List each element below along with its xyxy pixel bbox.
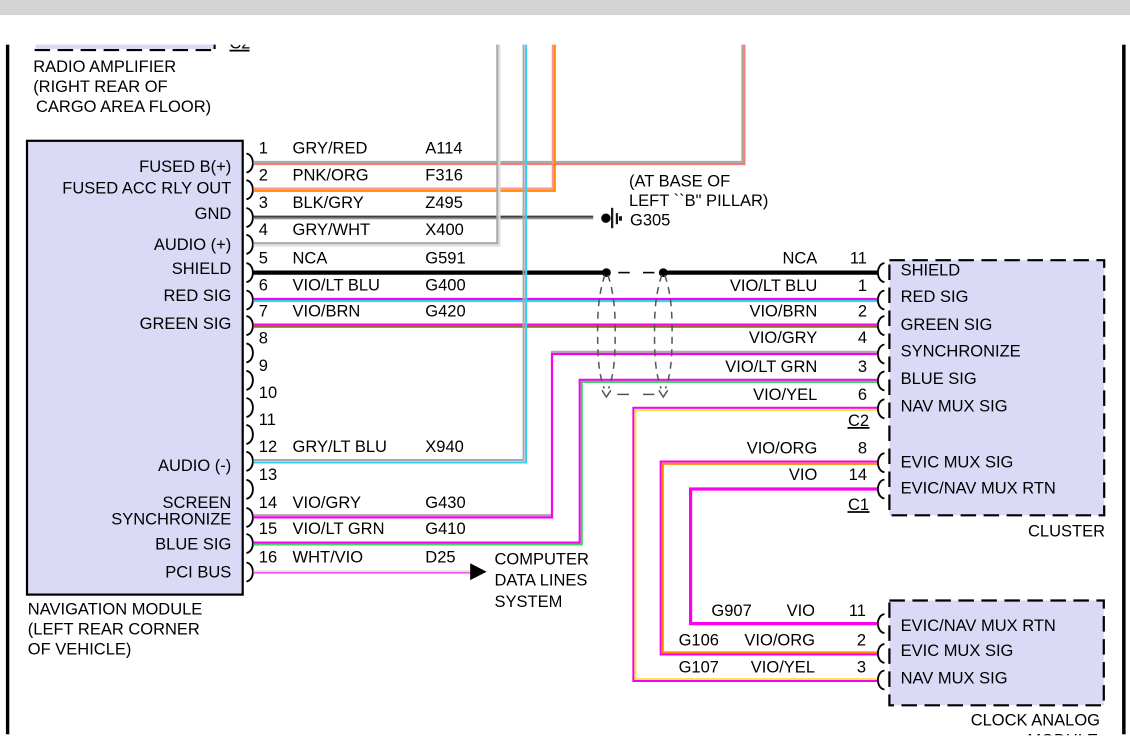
clock wire label G106 VIO/ORG pin 2 — [679, 632, 866, 650]
svg-text:BLK/GRY: BLK/GRY — [293, 194, 364, 212]
pin 5 number and wire label — [259, 249, 466, 267]
svg-text:VIO/YEL: VIO/YEL — [753, 386, 817, 404]
svg-text:GREEN SIG: GREEN SIG — [901, 316, 993, 334]
svg-text:13: 13 — [259, 466, 277, 484]
svg-text:VIO/LT BLU: VIO/LT BLU — [730, 277, 817, 295]
clock module pin connector NAV MUX SIG — [878, 671, 885, 690]
pin 10 number and wire label — [259, 384, 277, 402]
cluster wire label VIO/BRN pin 2 — [749, 303, 867, 321]
cluster pin connector GREEN SIG — [878, 316, 885, 335]
svg-text:8: 8 — [858, 440, 867, 458]
nav module pin 3 connector — [246, 208, 253, 227]
svg-text:4: 4 — [858, 329, 867, 347]
wire 4 GRY/WHT X400 — [253, 45, 499, 246]
wire EVIC MUX SIG VIO/ORG — [661, 462, 878, 655]
pin 2 number and wire label — [259, 166, 463, 184]
wire 5 SHIELD NCA G591 — [253, 271, 877, 275]
svg-text:6: 6 — [259, 277, 268, 295]
pin 9 number and wire label — [259, 357, 268, 375]
svg-text:CLUSTER: CLUSTER — [1028, 522, 1105, 540]
svg-text:16: 16 — [259, 549, 277, 567]
svg-text:SHIELD: SHIELD — [901, 262, 961, 280]
shield loop (right, dashed) — [655, 275, 673, 397]
shield loop bottom link (dashed) — [617, 393, 654, 395]
nav module pin 15 connector — [246, 534, 253, 553]
svg-text:G400: G400 — [425, 277, 465, 295]
svg-text:RED SIG: RED SIG — [901, 288, 969, 306]
svg-text:VIO/LT GRN: VIO/LT GRN — [725, 358, 817, 376]
svg-text:EVIC MUX SIG: EVIC MUX SIG — [901, 454, 1014, 472]
svg-text:SYNCHRONIZE: SYNCHRONIZE — [901, 343, 1021, 361]
svg-text:VIO/YEL: VIO/YEL — [751, 658, 815, 676]
svg-text:5: 5 — [259, 249, 268, 267]
cluster wire label VIO/GRY pin 4 — [749, 329, 867, 347]
svg-text:VIO/BRN: VIO/BRN — [749, 303, 817, 321]
navigation module caption — [28, 601, 203, 659]
svg-text:14: 14 — [849, 466, 867, 484]
wire 15 VIO/LT GRN G410 blue sig — [253, 380, 877, 545]
svg-text:G410: G410 — [425, 520, 465, 538]
cluster pin connector SYNCHRONIZE — [878, 345, 885, 364]
svg-text:G430: G430 — [425, 494, 465, 512]
svg-text:AUDIO (-): AUDIO (-) — [158, 457, 231, 475]
svg-text:D25: D25 — [425, 549, 455, 567]
clock module pin connector EVIC MUX SIG — [878, 644, 885, 663]
cluster wire label VIO pin 14 — [789, 466, 867, 484]
svg-text:4: 4 — [259, 221, 268, 239]
svg-text:FUSED B(+): FUSED B(+) — [139, 158, 231, 176]
svg-text:EVIC/NAV MUX RTN: EVIC/NAV MUX RTN — [901, 617, 1056, 635]
cluster pin connector EVIC/NAV MUX RTN — [878, 480, 885, 499]
svg-text:SYSTEM: SYSTEM — [495, 593, 563, 611]
off-page arrow to computer data lines system — [470, 563, 486, 580]
left page border line — [6, 45, 9, 735]
wire NAV MUX SIG VIO/YEL — [633, 408, 877, 681]
nav module pin 10 connector — [246, 398, 253, 417]
svg-text:11: 11 — [849, 602, 866, 620]
connector label C2 (radio amplifier, clipped) — [229, 35, 250, 53]
svg-text:10: 10 — [259, 384, 277, 402]
wire 6 VIO/LT BLU G400 — [253, 299, 877, 301]
clock analog module caption — [971, 711, 1100, 749]
svg-text:AUDIO (+): AUDIO (+) — [154, 236, 231, 254]
nav module pin 6 connector — [246, 291, 253, 310]
svg-text:BLUE SIG: BLUE SIG — [155, 535, 231, 553]
svg-text:3: 3 — [858, 358, 867, 376]
svg-text:VIO: VIO — [787, 602, 816, 620]
cluster pin connector BLUE SIG — [878, 371, 885, 390]
top gray bar — [0, 0, 1130, 15]
svg-text:9: 9 — [259, 357, 268, 375]
pin 7 number and wire label — [259, 302, 466, 320]
svg-text:VIO/ORG: VIO/ORG — [747, 440, 818, 458]
svg-text:14: 14 — [259, 494, 277, 512]
wire 16 WHT/VIO D25 PCI bus — [253, 571, 470, 573]
junction node on shield (left) — [602, 268, 611, 277]
svg-text:EVIC/NAV MUX RTN: EVIC/NAV MUX RTN — [901, 480, 1056, 498]
svg-text:11: 11 — [850, 250, 867, 268]
svg-text:1: 1 — [259, 140, 268, 158]
svg-text:F316: F316 — [425, 166, 463, 184]
clock wire label G907 VIO pin 11 — [711, 602, 866, 620]
svg-text:1: 1 — [858, 277, 867, 295]
svg-text:VIO/LT GRN: VIO/LT GRN — [293, 520, 385, 538]
svg-text:X400: X400 — [425, 221, 464, 239]
svg-text:G591: G591 — [425, 249, 465, 267]
svg-text:GND: GND — [195, 205, 232, 223]
ground G305 symbol — [601, 208, 622, 228]
svg-text:GRY/WHT: GRY/WHT — [293, 221, 371, 239]
radio amplifier caption — [33, 58, 211, 116]
svg-text:VIO/GRY: VIO/GRY — [749, 329, 817, 347]
svg-text:12: 12 — [259, 438, 277, 456]
svg-text:OF VEHICLE): OF VEHICLE) — [28, 640, 132, 658]
clock wire label G107 VIO/YEL pin 3 — [679, 658, 866, 676]
svg-text:2: 2 — [259, 166, 268, 184]
svg-text:G107: G107 — [679, 658, 719, 676]
svg-text:SHIELD: SHIELD — [172, 260, 232, 278]
pin 1 number and wire label — [259, 140, 463, 158]
pin 4 number and wire label — [259, 221, 464, 239]
cluster pin connector NAV MUX SIG — [878, 399, 885, 418]
pin 14 number and wire label — [259, 494, 466, 512]
cluster module box (dashed) — [889, 260, 1104, 515]
svg-text:CARGO AREA FLOOR): CARGO AREA FLOOR) — [36, 98, 211, 116]
nav module pin 8 connector — [246, 343, 253, 362]
svg-text:G907: G907 — [711, 602, 751, 620]
svg-text:RADIO AMPLIFIER: RADIO AMPLIFIER — [33, 58, 176, 76]
svg-text:VIO/ORG: VIO/ORG — [744, 632, 815, 650]
svg-text:Z495: Z495 — [425, 194, 463, 212]
pin 8 number and wire label — [259, 330, 268, 348]
right page border line — [1122, 45, 1126, 735]
wire 14 VIO/GRY G430 synchronize — [253, 352, 877, 518]
cluster pin connector RED SIG — [878, 291, 885, 310]
svg-text:GRY/LT BLU: GRY/LT BLU — [293, 438, 387, 456]
svg-text:7: 7 — [259, 302, 268, 320]
junction node on shield (right) — [659, 268, 668, 277]
nav module pin 16 connector — [246, 563, 253, 582]
cluster connector label C2 — [848, 412, 870, 430]
clock analog module box (dashed) — [889, 601, 1103, 706]
svg-text:EVIC MUX SIG: EVIC MUX SIG — [901, 642, 1014, 660]
pin 15 number and wire label — [259, 520, 466, 538]
cluster wire label VIO/YEL pin 6 — [753, 386, 867, 404]
nav module pin 9 connector — [246, 371, 253, 390]
svg-text:VIO/GRY: VIO/GRY — [293, 494, 361, 512]
svg-text:WHT/VIO: WHT/VIO — [293, 549, 364, 567]
cluster wire label VIO/LT GRN pin 3 — [725, 358, 867, 376]
svg-text:BLUE SIG: BLUE SIG — [901, 370, 977, 388]
wire 7 VIO/BRN G420 — [253, 325, 877, 327]
svg-text:G420: G420 — [425, 302, 465, 320]
clock module pin connector EVIC/NAV MUX RTN — [878, 614, 885, 633]
cluster pin connector SHIELD — [878, 263, 885, 282]
cluster connector label C1 — [848, 496, 870, 514]
computer data lines caption — [495, 551, 590, 611]
nav module pin 13 connector — [246, 480, 253, 499]
svg-text:NAV MUX SIG: NAV MUX SIG — [901, 398, 1008, 416]
nav module pin 11 connector — [246, 425, 253, 444]
svg-text:15: 15 — [259, 520, 277, 538]
pin 3 number and wire label — [259, 194, 463, 212]
svg-text:RED SIG: RED SIG — [163, 287, 231, 305]
nav module pin 14 connector — [246, 508, 253, 527]
pin 13 number and wire label — [259, 466, 277, 484]
svg-text:LEFT ``B" PILLAR): LEFT ``B" PILLAR) — [629, 192, 768, 210]
svg-text:(AT BASE OF: (AT BASE OF — [629, 172, 730, 190]
svg-text:VIO: VIO — [789, 466, 818, 484]
nav module pin 2 connector — [246, 180, 253, 199]
wire 12 GRY/LT BLU X940 — [253, 45, 526, 463]
svg-text:NCA: NCA — [293, 249, 328, 267]
cluster wire label VIO/ORG pin 8 — [747, 440, 867, 458]
svg-text:2: 2 — [858, 303, 867, 321]
svg-text:GREEN SIG: GREEN SIG — [140, 315, 232, 333]
pin 11 number and wire label — [259, 411, 276, 429]
cluster wire label VIO/LT BLU pin 1 — [730, 277, 867, 295]
wire 1 GRY/RED A114 — [253, 45, 744, 165]
svg-text:FUSED ACC RLY OUT: FUSED ACC RLY OUT — [62, 179, 231, 197]
wire 3 BLK/GRY Z495 to G305 — [253, 217, 593, 219]
svg-text:6: 6 — [858, 386, 867, 404]
nav module pin label SCREEN SYNCHRONIZE — [111, 494, 231, 528]
ground G305 caption — [629, 172, 768, 229]
svg-text:PNK/ORG: PNK/ORG — [293, 166, 369, 184]
svg-text:SCREEN: SCREEN — [163, 494, 232, 512]
nav module pin 5 connector — [246, 263, 253, 282]
pin 16 number and wire label — [259, 549, 456, 567]
cluster wire label NCA pin 11 — [782, 250, 867, 268]
svg-text:NAVIGATION MODULE: NAVIGATION MODULE — [28, 601, 203, 619]
svg-text:SYNCHRONIZE: SYNCHRONIZE — [111, 511, 231, 529]
svg-text:GRY/RED: GRY/RED — [293, 140, 368, 158]
pin 12 number and wire label — [259, 438, 464, 456]
svg-text:PCI BUS: PCI BUS — [165, 564, 231, 582]
svg-text:3: 3 — [259, 194, 268, 212]
svg-text:G305: G305 — [630, 212, 670, 230]
svg-text:2: 2 — [857, 632, 866, 650]
nav module pin 1 connector — [246, 154, 253, 173]
svg-text:CLOCK ANALOG: CLOCK ANALOG — [971, 711, 1100, 729]
nav module pin 4 connector — [246, 235, 253, 254]
nav module pin 12 connector — [246, 452, 253, 471]
shield loop (left, dashed) — [598, 275, 616, 397]
svg-text:NCA: NCA — [782, 250, 817, 268]
svg-text:VIO/BRN: VIO/BRN — [293, 302, 361, 320]
radio amplifier module box (partial) — [35, 40, 216, 50]
wire EVIC/NAV MUX RTN VIO — [691, 489, 878, 624]
svg-text:DATA LINES: DATA LINES — [495, 572, 588, 590]
wire 2 PNK/ORG F316 — [253, 45, 554, 191]
svg-text:COMPUTER: COMPUTER — [495, 551, 590, 569]
svg-text:11: 11 — [259, 411, 276, 429]
cluster pin connector EVIC MUX SIG — [878, 453, 885, 472]
navigation module U1 box — [27, 141, 243, 595]
svg-text:8: 8 — [259, 330, 268, 348]
svg-text:X940: X940 — [425, 438, 464, 456]
svg-text:NAV MUX SIG: NAV MUX SIG — [901, 669, 1008, 687]
svg-text:G106: G106 — [679, 632, 719, 650]
svg-text:VIO/LT BLU: VIO/LT BLU — [293, 277, 380, 295]
svg-text:A114: A114 — [425, 140, 462, 158]
pin 6 number and wire label — [259, 277, 466, 295]
svg-text:3: 3 — [857, 658, 866, 676]
svg-text:(LEFT REAR CORNER: (LEFT REAR CORNER — [28, 621, 200, 639]
nav module pin 7 connector — [246, 316, 253, 335]
svg-text:(RIGHT REAR OF: (RIGHT REAR OF — [33, 78, 167, 96]
